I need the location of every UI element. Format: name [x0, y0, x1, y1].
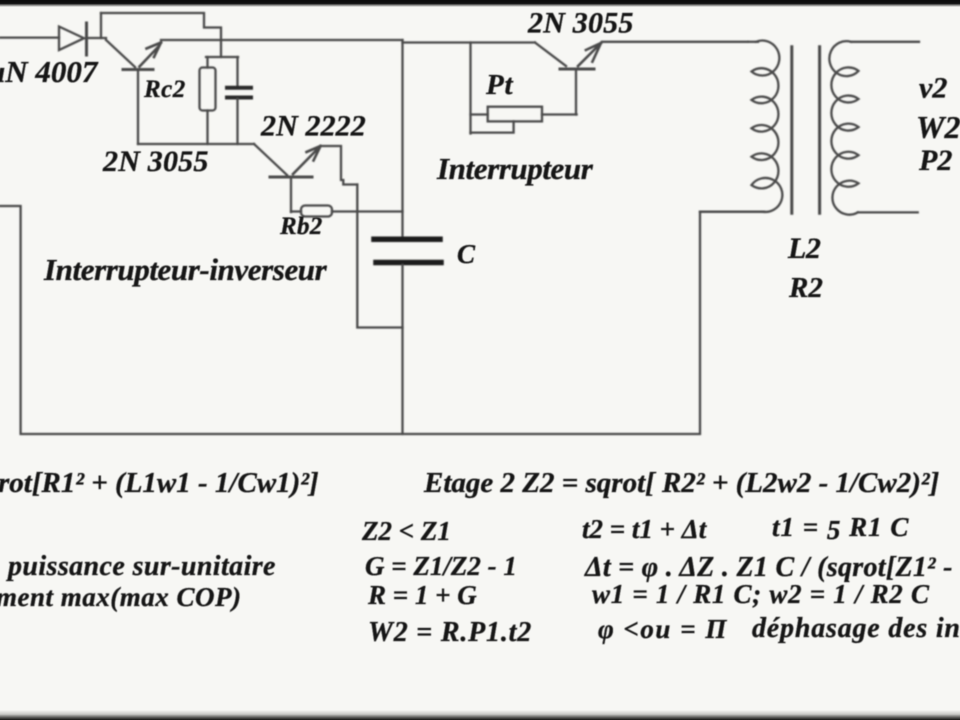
transistor Q1 emitter — [137, 70, 139, 145]
svg-text:G = Z1/Z2 - 1: G = Z1/Z2 - 1 — [365, 551, 517, 581]
transformer primary L2 coil — [752, 41, 783, 212]
wire Rc2 stem bottom — [206, 111, 208, 145]
capacitor C top plate — [374, 237, 440, 243]
svg-text:C: C — [457, 239, 476, 269]
diode cathode bar — [85, 23, 88, 55]
svg-text:W2: W2 — [916, 109, 960, 145]
wire Pt box left — [471, 113, 488, 115]
svg-text:rot[R1² + (L1w1 - 1/Cw1)²]: rot[R1² + (L1w1 - 1/Cw1)²] — [0, 467, 319, 499]
transistor Q2 arrow — [293, 146, 321, 174]
svg-text:w1 = 1 / R1 C; w2 = 1 / R2 C: w1 = 1 / R1 C; w2 = 1 / R2 C — [592, 579, 930, 609]
svg-text:déphasage des int: déphasage des int — [752, 613, 960, 644]
svg-text:ment max(max COP): ment max(max COP) — [0, 582, 242, 612]
wire Rc2 stem top — [206, 57, 208, 68]
transistor Q3 base bar — [560, 68, 594, 71]
svg-text:Pt: Pt — [485, 69, 514, 101]
wire diode to node — [87, 37, 107, 39]
wire bus top right — [403, 41, 536, 43]
svg-text:W2 = R.P1.t2: W2 = R.P1.t2 — [368, 617, 532, 648]
wire Q1 collector to bus — [161, 39, 403, 41]
wire Q3 to transformer — [602, 41, 748, 43]
wire Pt left vertical — [469, 43, 471, 134]
wire emitter to Rb2 — [291, 210, 301, 212]
svg-text:2N 3055: 2N 3055 — [527, 7, 634, 40]
wire collector drop — [357, 185, 402, 328]
svg-text:2N 2222: 2N 2222 — [260, 110, 366, 143]
svg-text:φ <ou = Π: φ <ou = Π — [598, 614, 728, 644]
svg-text:Rb2: Rb2 — [279, 213, 323, 240]
svg-text:R2: R2 — [788, 272, 823, 304]
wire secondary top lead — [851, 41, 919, 43]
wire cap stem bottom — [236, 99, 238, 144]
wire cap stem top — [236, 57, 238, 86]
main bus upper — [401, 40, 403, 236]
wire bottom rectangle — [0, 206, 764, 434]
transformer core — [790, 47, 793, 214]
wire Pt wiper — [471, 121, 514, 132]
svg-text:2N 3055: 2N 3055 — [102, 145, 209, 178]
capacitor C2 plates — [227, 86, 251, 90]
wire top loop — [101, 13, 221, 57]
svg-text:v2: v2 — [919, 72, 947, 105]
svg-text:uN 4007: uN 4007 — [0, 54, 99, 89]
svg-text:Interrupteur: Interrupteur — [436, 151, 594, 186]
resistor Rc2 — [200, 68, 216, 111]
svg-text:t2 = t1 + Δt: t2 = t1 + Δt — [582, 514, 708, 544]
transistor Q3 arrow — [578, 43, 601, 66]
transistor Q1 2N3055 base diagonal — [106, 40, 135, 67]
transistor Q2 2N2222 base diagonal — [254, 144, 287, 175]
transistor Q1 base bar — [123, 68, 153, 71]
svg-text:L2: L2 — [787, 232, 821, 265]
svg-text:Etage 2 Z2 = sqrot[ R2² + (L2w: Etage 2 Z2 = sqrot[ R2² + (L2w2 - 1/Cw2)… — [423, 467, 939, 499]
wire input left — [0, 36, 59, 38]
svg-text:puissance sur-unitaire: puissance sur-unitaire — [6, 551, 276, 582]
diode uN4007 — [59, 27, 84, 51]
wire Pt box right — [542, 113, 577, 115]
wire primary bottom lead — [700, 211, 763, 213]
svg-text:t1 = 5 R1 C: t1 = 5 R1 C — [772, 512, 909, 545]
node bar Rc2/cap top — [206, 56, 238, 58]
transistor Q2 emitter — [290, 177, 292, 212]
wire node y144 — [138, 143, 254, 145]
wire primary top lead stub — [748, 41, 758, 43]
transistor Q3 2N3055 base diagonal — [535, 43, 566, 67]
resistor Rb2 — [301, 206, 332, 217]
wire Rb2 to bus — [332, 210, 403, 212]
main bus lower — [401, 265, 403, 434]
wire riser to top loop — [100, 13, 102, 38]
wire Q2 collector step — [321, 146, 357, 185]
transformer secondary coil — [829, 41, 858, 215]
transistor Q3 emitter — [575, 69, 577, 115]
potentiometer Pt box — [488, 107, 542, 122]
transistor Q1 arrow — [140, 43, 162, 67]
transistor Q2 base bar — [270, 176, 312, 179]
top letterbox bar — [0, 0, 960, 7]
svg-text:Rc2: Rc2 — [143, 76, 186, 103]
svg-text:Z2 < Z1: Z2 < Z1 — [361, 516, 451, 546]
svg-text:P2: P2 — [918, 144, 952, 177]
bottom letterbox bar — [0, 710, 960, 720]
svg-text:R = 1 + G: R = 1 + G — [367, 580, 477, 610]
wire secondary bottom lead — [858, 211, 918, 213]
capacitor C bottom plate — [376, 260, 441, 266]
svg-text:Interrupteur-inverseur: Interrupteur-inverseur — [43, 252, 328, 287]
